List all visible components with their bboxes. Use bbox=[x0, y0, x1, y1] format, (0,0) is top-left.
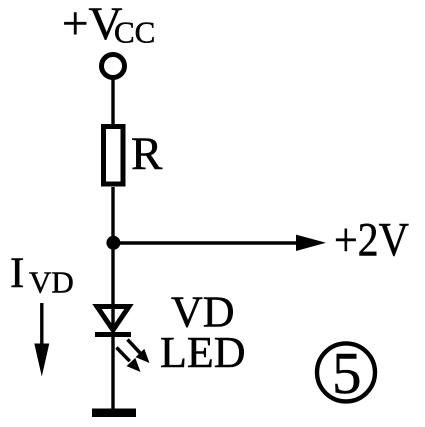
svg-text:LED: LED bbox=[160, 328, 246, 377]
svg-text:I: I bbox=[10, 250, 24, 297]
svg-text:+2V: +2V bbox=[334, 214, 409, 267]
svg-text:R: R bbox=[131, 128, 163, 180]
svg-text:VD: VD bbox=[29, 265, 74, 300]
resistor R bbox=[104, 127, 124, 185]
LED light arrow 2 bbox=[117, 348, 130, 362]
current arrow IVD bbox=[40, 303, 43, 348]
LED VD bbox=[97, 307, 129, 331]
figure number 5 bbox=[317, 343, 375, 401]
svg-text:CC: CC bbox=[114, 15, 155, 50]
wire arrow to +2V bbox=[113, 241, 297, 244]
svg-text:5: 5 bbox=[332, 340, 362, 406]
ground bbox=[92, 409, 136, 418]
wire bbox=[111, 77, 114, 126]
wire bbox=[111, 187, 114, 409]
node A bbox=[106, 236, 120, 250]
LED light arrow 1 bbox=[128, 340, 141, 354]
terminal VCC bbox=[102, 55, 125, 78]
